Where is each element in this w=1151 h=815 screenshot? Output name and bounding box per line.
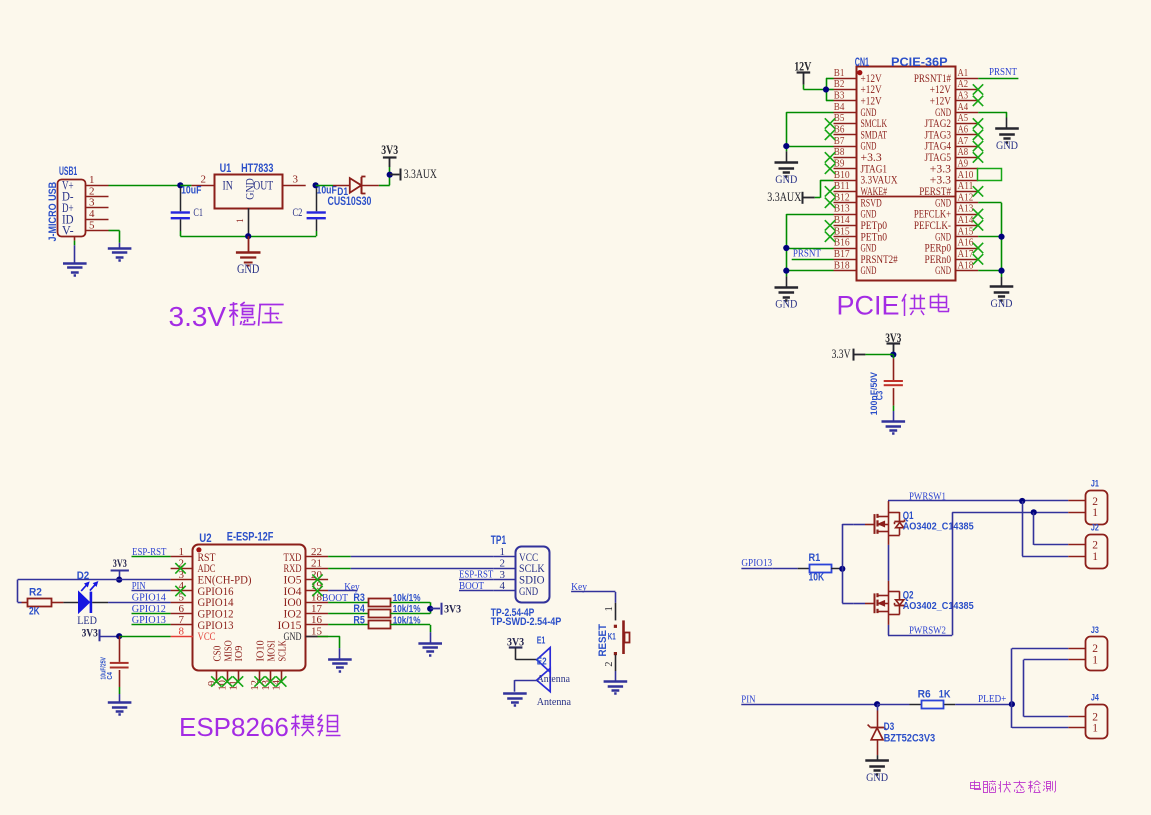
svg-text:C1: C1 bbox=[193, 205, 203, 219]
svg-text:PRSNT1#: PRSNT1# bbox=[914, 73, 951, 85]
svg-text:2: 2 bbox=[201, 173, 207, 185]
svg-text:GND: GND bbox=[866, 770, 888, 784]
svg-text:A10: A10 bbox=[958, 169, 974, 181]
svg-text:+3.3: +3.3 bbox=[930, 163, 952, 175]
svg-text:1: 1 bbox=[1092, 507, 1098, 519]
svg-text:1: 1 bbox=[500, 546, 506, 558]
svg-text:SMCLK: SMCLK bbox=[861, 118, 888, 130]
svg-text:J1: J1 bbox=[1091, 479, 1100, 490]
svg-text:B4: B4 bbox=[834, 101, 845, 113]
svg-text:A6: A6 bbox=[958, 124, 969, 136]
svg-text:GND: GND bbox=[935, 231, 951, 243]
svg-text:BZT52C3V3: BZT52C3V3 bbox=[884, 733, 936, 745]
svg-text:PRSNT: PRSNT bbox=[989, 67, 1017, 78]
svg-text:TP-SWD-2.54-4P: TP-SWD-2.54-4P bbox=[491, 616, 562, 628]
svg-text:HT7833: HT7833 bbox=[241, 161, 274, 175]
svg-text:GND: GND bbox=[861, 107, 877, 119]
svg-text:3: 3 bbox=[89, 197, 95, 209]
svg-text:7: 7 bbox=[179, 614, 185, 626]
svg-text:PLED+: PLED+ bbox=[978, 694, 1006, 705]
svg-text:K1: K1 bbox=[608, 631, 616, 641]
svg-text:+3.3: +3.3 bbox=[930, 175, 952, 187]
svg-text:GND: GND bbox=[861, 265, 877, 277]
svg-text:GND: GND bbox=[237, 262, 260, 276]
svg-text:3.3V: 3.3V bbox=[169, 301, 227, 332]
svg-text:PERn0: PERn0 bbox=[925, 254, 952, 266]
svg-text:USB1: USB1 bbox=[59, 164, 77, 178]
svg-text:B9: B9 bbox=[834, 157, 845, 169]
svg-text:R4: R4 bbox=[353, 603, 365, 615]
svg-text:GND: GND bbox=[861, 209, 877, 221]
svg-text:GND: GND bbox=[935, 107, 951, 119]
svg-text:J-MICRO USB: J-MICRO USB bbox=[47, 182, 59, 242]
svg-text:A3: A3 bbox=[958, 90, 969, 102]
svg-text:E-ESP-12F: E-ESP-12F bbox=[227, 529, 274, 543]
svg-text:+12V: +12V bbox=[930, 95, 951, 107]
svg-text:2: 2 bbox=[1092, 540, 1098, 552]
svg-text:A14: A14 bbox=[958, 214, 974, 226]
svg-text:GND: GND bbox=[775, 297, 797, 311]
svg-text:2K: 2K bbox=[29, 606, 40, 618]
svg-text:A1: A1 bbox=[958, 67, 969, 79]
svg-text:3V3: 3V3 bbox=[82, 628, 98, 640]
svg-text:J2: J2 bbox=[1091, 523, 1099, 534]
svg-text:GND: GND bbox=[935, 197, 951, 209]
svg-text:B16: B16 bbox=[834, 237, 850, 249]
svg-text:A16: A16 bbox=[958, 237, 974, 249]
svg-text:3V3: 3V3 bbox=[444, 604, 461, 616]
svg-text:4: 4 bbox=[89, 208, 95, 220]
svg-text:B17: B17 bbox=[834, 248, 850, 260]
svg-text:SMDAT: SMDAT bbox=[861, 129, 888, 141]
svg-text:3.3AUX: 3.3AUX bbox=[404, 167, 437, 181]
svg-text:PRSNT: PRSNT bbox=[793, 248, 821, 259]
svg-text:GND: GND bbox=[775, 172, 797, 186]
svg-text:B11: B11 bbox=[834, 180, 850, 192]
svg-text:PERST#: PERST# bbox=[919, 186, 951, 198]
svg-text:B10: B10 bbox=[834, 169, 850, 181]
svg-text:C3: C3 bbox=[875, 391, 885, 400]
svg-text:21: 21 bbox=[311, 558, 322, 570]
svg-text:1: 1 bbox=[604, 606, 615, 611]
svg-text:PETn0: PETn0 bbox=[861, 231, 888, 243]
svg-text:PRSNT2#: PRSNT2# bbox=[861, 254, 898, 266]
svg-text:GND: GND bbox=[861, 243, 877, 255]
svg-text:B3: B3 bbox=[834, 90, 845, 102]
svg-text:3.3V: 3.3V bbox=[832, 347, 851, 361]
svg-text:GND: GND bbox=[244, 178, 256, 200]
svg-text:B2: B2 bbox=[834, 78, 845, 90]
svg-text:E2: E2 bbox=[537, 657, 547, 668]
svg-text:D3: D3 bbox=[884, 721, 895, 733]
svg-text:1: 1 bbox=[1092, 723, 1098, 735]
svg-text:PCIE: PCIE bbox=[837, 291, 900, 321]
svg-text:R6: R6 bbox=[918, 689, 931, 701]
svg-text:B1: B1 bbox=[834, 67, 845, 79]
svg-text:RSVD: RSVD bbox=[861, 197, 882, 209]
svg-text:JTAG1: JTAG1 bbox=[861, 163, 888, 175]
svg-text:IO9: IO9 bbox=[233, 645, 245, 661]
svg-text:A8: A8 bbox=[958, 146, 969, 158]
svg-text:A18: A18 bbox=[958, 259, 974, 271]
svg-text:JTAG2: JTAG2 bbox=[925, 118, 952, 130]
svg-text:B7: B7 bbox=[834, 135, 845, 147]
svg-text:PETp0: PETp0 bbox=[861, 220, 888, 232]
svg-text:4: 4 bbox=[500, 580, 506, 592]
svg-text:GND: GND bbox=[996, 138, 1018, 152]
svg-text:B13: B13 bbox=[834, 203, 850, 215]
svg-text:+12V: +12V bbox=[861, 95, 882, 107]
svg-text:3: 3 bbox=[500, 569, 506, 581]
svg-text:R5: R5 bbox=[353, 615, 365, 627]
svg-text:16: 16 bbox=[311, 614, 323, 626]
svg-text:A12: A12 bbox=[958, 191, 974, 203]
svg-text:AO3402_C14385: AO3402_C14385 bbox=[903, 600, 974, 612]
svg-text:B8: B8 bbox=[834, 146, 845, 158]
svg-text:17: 17 bbox=[311, 603, 323, 615]
svg-text:C2: C2 bbox=[293, 205, 303, 219]
svg-text:E1: E1 bbox=[537, 636, 546, 647]
svg-text:A11: A11 bbox=[958, 180, 974, 192]
svg-text:PIN: PIN bbox=[741, 694, 756, 705]
svg-text:Antenna: Antenna bbox=[537, 697, 572, 708]
svg-text:3V3: 3V3 bbox=[381, 143, 398, 157]
svg-text:1: 1 bbox=[1092, 655, 1098, 667]
svg-text:2: 2 bbox=[89, 185, 95, 197]
svg-text:GND: GND bbox=[861, 141, 877, 153]
svg-text:B6: B6 bbox=[834, 124, 845, 136]
svg-text:+12V: +12V bbox=[861, 84, 882, 96]
svg-text:LED: LED bbox=[77, 613, 97, 627]
svg-text:6: 6 bbox=[179, 603, 185, 615]
svg-text:AO3402_C14385: AO3402_C14385 bbox=[903, 521, 974, 533]
svg-text:GPIO13: GPIO13 bbox=[741, 558, 772, 569]
svg-text:Antenna: Antenna bbox=[537, 674, 571, 685]
svg-text:U1: U1 bbox=[220, 161, 232, 175]
svg-text:V-: V- bbox=[62, 224, 74, 238]
svg-text:A7: A7 bbox=[958, 135, 969, 147]
svg-text:22: 22 bbox=[311, 546, 322, 558]
svg-text:R3: R3 bbox=[353, 592, 365, 604]
svg-text:CN1: CN1 bbox=[855, 55, 869, 69]
svg-text:2: 2 bbox=[1092, 711, 1098, 723]
svg-text:JTAG5: JTAG5 bbox=[925, 152, 952, 164]
svg-text:5: 5 bbox=[89, 219, 95, 231]
svg-text:GPIO14: GPIO14 bbox=[132, 593, 167, 604]
svg-text:D2: D2 bbox=[77, 570, 90, 582]
svg-text:15: 15 bbox=[311, 625, 323, 637]
svg-text:A9: A9 bbox=[958, 157, 969, 169]
svg-text:B14: B14 bbox=[834, 214, 850, 226]
svg-text:R1: R1 bbox=[809, 552, 821, 564]
svg-text:A5: A5 bbox=[958, 112, 969, 124]
svg-text:R2: R2 bbox=[29, 586, 42, 598]
svg-text:A17: A17 bbox=[958, 248, 974, 260]
svg-text:GND: GND bbox=[935, 265, 951, 277]
svg-text:VCC: VCC bbox=[198, 629, 216, 643]
svg-text:B12: B12 bbox=[834, 191, 850, 203]
svg-text:+12V: +12V bbox=[861, 73, 882, 85]
svg-text:2: 2 bbox=[1092, 643, 1098, 655]
svg-text:3V3: 3V3 bbox=[113, 558, 127, 570]
svg-text:B15: B15 bbox=[834, 225, 850, 237]
svg-text:1: 1 bbox=[236, 218, 246, 223]
svg-text:JTAG4: JTAG4 bbox=[925, 141, 952, 153]
svg-text:B5: B5 bbox=[834, 112, 845, 124]
svg-text:10K: 10K bbox=[809, 572, 825, 584]
svg-text:1: 1 bbox=[89, 174, 95, 186]
svg-text:GND: GND bbox=[991, 296, 1013, 310]
svg-text:1: 1 bbox=[179, 546, 185, 558]
svg-text:2: 2 bbox=[500, 558, 506, 570]
svg-text:SCLK: SCLK bbox=[276, 640, 288, 661]
svg-text:2: 2 bbox=[1092, 496, 1098, 508]
svg-text:A2: A2 bbox=[958, 78, 969, 90]
svg-text:GND: GND bbox=[519, 584, 538, 598]
svg-text:1K: 1K bbox=[939, 689, 951, 701]
svg-text:PCIE-36P: PCIE-36P bbox=[891, 55, 948, 69]
svg-text:B18: B18 bbox=[834, 259, 850, 271]
svg-text:+3.3: +3.3 bbox=[861, 152, 883, 164]
svg-text:1: 1 bbox=[1092, 551, 1098, 563]
svg-text:+12V: +12V bbox=[930, 84, 951, 96]
svg-text:2: 2 bbox=[604, 662, 615, 667]
svg-text:A4: A4 bbox=[958, 101, 969, 113]
svg-text:PEFCLK-: PEFCLK- bbox=[914, 220, 951, 232]
svg-text:A13: A13 bbox=[958, 203, 974, 215]
svg-text:J3: J3 bbox=[1091, 625, 1099, 636]
svg-text:A15: A15 bbox=[958, 225, 974, 237]
svg-text:PEFCLK+: PEFCLK+ bbox=[914, 209, 951, 221]
svg-text:JTAG3: JTAG3 bbox=[925, 129, 952, 141]
svg-text:PERp0: PERp0 bbox=[925, 243, 952, 255]
svg-text:10uF: 10uF bbox=[181, 185, 202, 197]
svg-text:3.3AUX: 3.3AUX bbox=[767, 190, 801, 204]
svg-text:CUS10S30: CUS10S30 bbox=[328, 196, 372, 208]
svg-text:WAKE#: WAKE# bbox=[861, 186, 888, 198]
svg-text:3.3VAUX: 3.3VAUX bbox=[861, 175, 898, 187]
svg-text:8: 8 bbox=[179, 625, 185, 637]
svg-text:TP1: TP1 bbox=[491, 533, 507, 547]
svg-text:J4: J4 bbox=[1091, 693, 1100, 704]
svg-text:C4: C4 bbox=[105, 672, 114, 680]
svg-text:3: 3 bbox=[293, 173, 299, 185]
svg-text:IN: IN bbox=[223, 177, 234, 192]
svg-text:ESP8266: ESP8266 bbox=[179, 712, 289, 742]
svg-text:U2: U2 bbox=[199, 531, 212, 545]
